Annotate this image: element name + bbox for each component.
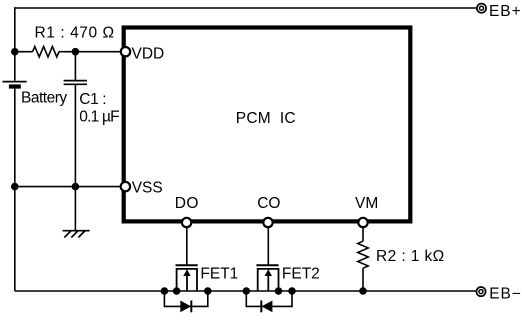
- wire node A to R1: [15, 51, 33, 53]
- op IC body PCM IC: [124, 28, 411, 222]
- pin CO: [263, 218, 272, 227]
- junction dot battery-/VSS: [11, 183, 19, 191]
- svg-text:EB+: EB+: [489, 3, 522, 20]
- svg-text:PCM IC: PCM IC: [236, 110, 296, 127]
- junction dot FET1 source: [173, 287, 181, 295]
- junction dot FET1 diode anode: [161, 287, 169, 295]
- wire CO gate lead: [267, 227, 269, 265]
- wire R2 to bottom rail: [362, 268, 364, 291]
- svg-text:FET1: FET1: [200, 266, 238, 283]
- svg-text:R2 : 1 kΩ: R2 : 1 kΩ: [376, 248, 445, 265]
- wire DO gate lead: [186, 227, 188, 265]
- junction dot R2 bottom: [359, 287, 367, 295]
- junction dot C1 bottom/ground: [72, 183, 80, 191]
- wire bottom rail to EB-: [15, 290, 476, 292]
- wire VSS row: [15, 186, 121, 188]
- diode D1 body diode of FET1: [164, 291, 207, 312]
- pin VM: [358, 218, 367, 227]
- junction dot FET2 diode cathode: [243, 287, 251, 295]
- capacitor C1: [64, 81, 87, 85]
- svg-text:CO: CO: [257, 195, 280, 212]
- ground: [63, 231, 90, 238]
- svg-text:VM: VM: [355, 195, 378, 212]
- svg-text:EB−: EB−: [489, 285, 522, 302]
- resistor R2: [358, 241, 368, 268]
- svg-text:DO: DO: [175, 195, 199, 212]
- battery BT1: [3, 82, 27, 89]
- pin VDD: [121, 47, 130, 56]
- pin VSS: [121, 182, 130, 191]
- junction dot FET2 diode anode: [288, 287, 296, 295]
- transistor FET1: [176, 265, 198, 291]
- resistor R1: [33, 47, 59, 57]
- pin DO: [182, 218, 191, 227]
- svg-text:VSS: VSS: [132, 180, 163, 197]
- junction dot FET2 source: [275, 287, 283, 295]
- terminal EB-: [476, 287, 485, 296]
- wire C1 top lead: [74, 52, 76, 80]
- wire left vertical from top rail to battery: [14, 7, 16, 81]
- wire battery to bottom rail: [14, 89, 16, 291]
- wire R1 to VDD pin: [59, 51, 121, 53]
- svg-text:C1 :: C1 :: [79, 91, 106, 108]
- svg-text:0.1 µF: 0.1 µF: [79, 108, 119, 125]
- wire C1 bottom lead: [74, 85, 76, 187]
- svg-text:Battery: Battery: [21, 90, 67, 107]
- wire ground stem: [74, 187, 76, 231]
- diode D2 body diode of FET2: [246, 291, 292, 312]
- junction dot battery+/R1: [11, 48, 19, 56]
- junction dot C1 top: [72, 48, 80, 56]
- transistor FET2: [256, 265, 278, 291]
- svg-text:FET2: FET2: [282, 266, 320, 283]
- wire top rail battery+ to EB+: [15, 7, 477, 9]
- terminal EB+: [477, 4, 486, 13]
- svg-text:R1 : 470 Ω: R1 : 470 Ω: [35, 25, 115, 42]
- junction dot FET1 diode cathode: [204, 287, 212, 295]
- wire VM to R2: [362, 227, 364, 241]
- svg-text:VDD: VDD: [132, 45, 165, 62]
